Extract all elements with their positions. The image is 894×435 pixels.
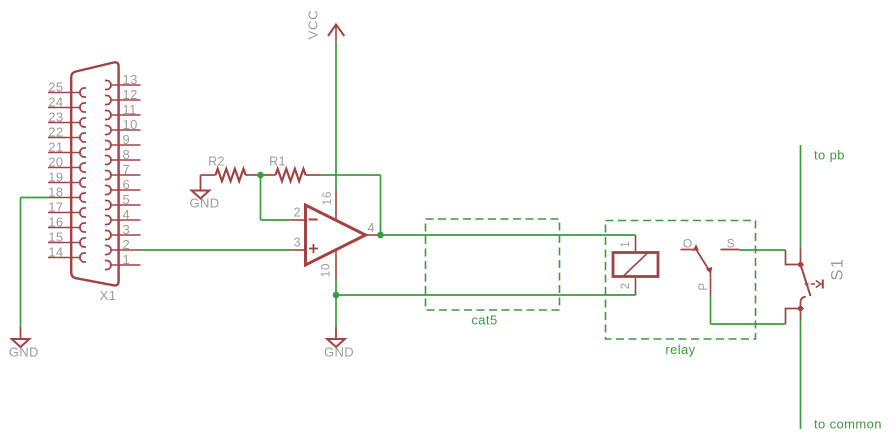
op-amp pin 3 (291, 249, 306, 251)
svg-text:P: P (698, 282, 710, 290)
svg-text:VCC: VCC (306, 10, 321, 40)
wire VCC down (335, 42, 337, 191)
relay pin P (698, 273, 711, 296)
wire to pb vertical (800, 145, 802, 249)
ground GND at R2 (189, 175, 219, 211)
svg-text:10: 10 (123, 117, 138, 132)
svg-text:10: 10 (321, 263, 333, 277)
ground GND left (9, 327, 39, 360)
svg-text:cat5: cat5 (471, 313, 497, 328)
svg-text:19: 19 (48, 170, 63, 185)
svg-text:9: 9 (123, 132, 131, 147)
X1 pin 12 (105, 87, 141, 105)
svg-text:20: 20 (48, 155, 63, 170)
X1 pin 21 (48, 140, 86, 158)
svg-text:4: 4 (368, 221, 375, 235)
svg-text:to pb: to pb (814, 148, 845, 163)
svg-text:2: 2 (123, 237, 131, 252)
svg-text:R1: R1 (269, 155, 286, 169)
wire junction to GND (335, 295, 337, 327)
S1 actuator arrow (805, 280, 823, 289)
X1 pin 8 (105, 147, 141, 165)
X1 pin 2 (105, 237, 141, 255)
op-amp pin 10 (335, 251, 337, 281)
svg-text:5: 5 (123, 192, 131, 207)
X1 pin 4 (105, 207, 141, 225)
relay contact S (721, 236, 740, 250)
svg-text:GND: GND (189, 196, 219, 211)
svg-text:16: 16 (322, 191, 334, 205)
wire pin2 to op-amp (141, 249, 291, 251)
svg-text:16: 16 (48, 215, 63, 230)
X1 pin 11 (105, 102, 141, 120)
X1 pin 14 (48, 245, 86, 263)
relay coil pin 1 (635, 235, 637, 253)
svg-text:22: 22 (48, 125, 63, 140)
X1 pin 13 (105, 72, 141, 90)
resistor R2 (201, 155, 261, 182)
wire ground net (336, 294, 636, 296)
X1 pin 23 (48, 110, 86, 128)
svg-text:R2: R2 (208, 155, 225, 169)
S1 lower contact (786, 297, 806, 324)
svg-text:2: 2 (294, 206, 301, 220)
svg-text:24: 24 (48, 95, 63, 110)
X1 pin 19 (48, 170, 86, 188)
supply VCC (306, 10, 345, 42)
wire pin18 horizontal (21, 197, 49, 199)
resistor R1 (261, 155, 321, 182)
relay switch arm (697, 250, 713, 274)
svg-text:25: 25 (48, 80, 63, 95)
svg-text:15: 15 (48, 230, 63, 245)
wire output net (381, 234, 636, 236)
wire to common (800, 321, 802, 430)
wire feedback vertical (380, 175, 382, 235)
X1 pin 17 (48, 200, 86, 218)
svg-text:3: 3 (294, 236, 301, 250)
S1 upper pin (786, 249, 805, 269)
svg-text:S1: S1 (829, 257, 847, 280)
X1 pin 7 (105, 162, 141, 180)
svg-text:17: 17 (48, 200, 63, 215)
wire pin18 vertical down (20, 198, 22, 328)
wire S contact to S1 (739, 249, 786, 251)
svg-text:1: 1 (123, 252, 131, 267)
svg-text:7: 7 (123, 162, 131, 177)
svg-text:18: 18 (48, 185, 63, 200)
op-amp U1 (306, 205, 366, 265)
svg-text:14: 14 (48, 245, 63, 260)
X1 pin 1 (105, 252, 141, 270)
svg-text:1: 1 (620, 240, 632, 247)
X1 pin 3 (105, 222, 141, 240)
svg-text:11: 11 (123, 102, 137, 117)
svg-text:2: 2 (620, 282, 632, 289)
X1 pin 18 (48, 185, 86, 203)
wire P to S1 (711, 323, 786, 325)
svg-text:4: 4 (123, 207, 131, 222)
svg-text:X1: X1 (100, 288, 117, 303)
svg-text:13: 13 (123, 72, 138, 87)
X1 pin 10 (105, 117, 141, 135)
svg-text:to common: to common (814, 417, 882, 432)
X1 pin 24 (48, 95, 86, 113)
wire P down (710, 296, 712, 325)
X1 pin 16 (48, 215, 86, 233)
S1 arm (801, 265, 811, 297)
svg-text:GND: GND (9, 345, 39, 360)
X1 pin 15 (48, 230, 86, 248)
junction node gnd net (333, 292, 340, 299)
svg-text:23: 23 (48, 110, 63, 125)
svg-text:O: O (683, 236, 693, 250)
svg-text:relay: relay (665, 342, 695, 357)
relay contact O (681, 236, 700, 251)
X1 pin 9 (105, 132, 141, 150)
junction node output (377, 232, 384, 239)
svg-text:S: S (727, 236, 735, 250)
wire junction down (260, 175, 262, 220)
junction node R1/R2 (257, 172, 264, 179)
relay coil pin 2 (635, 277, 637, 296)
relay coil (613, 253, 658, 277)
X1 pin 6 (105, 177, 141, 195)
ground GND center (324, 327, 354, 360)
svg-text:21: 21 (48, 140, 63, 155)
svg-text:3: 3 (123, 222, 131, 237)
X1 pin 5 (105, 192, 141, 210)
svg-text:6: 6 (123, 177, 131, 192)
connector X1 body (71, 62, 118, 285)
X1 pin 20 (48, 155, 86, 173)
wire to op-amp pin2 (261, 219, 291, 221)
op-amp pin 4 output (366, 234, 381, 236)
relay dashed box (606, 221, 756, 340)
X1 pin 22 (48, 125, 86, 143)
wire feedback horizontal (321, 174, 381, 176)
svg-text:8: 8 (123, 147, 131, 162)
op-amp pin 16 (335, 190, 337, 219)
wire pin10 to junction (335, 280, 337, 295)
svg-text:12: 12 (123, 87, 138, 102)
S1 lower pin down (800, 309, 802, 321)
cat5 dashed box (426, 219, 560, 310)
X1 pin 25 (48, 80, 86, 98)
svg-text:GND: GND (324, 345, 354, 360)
op-amp pin 2 (291, 219, 306, 221)
